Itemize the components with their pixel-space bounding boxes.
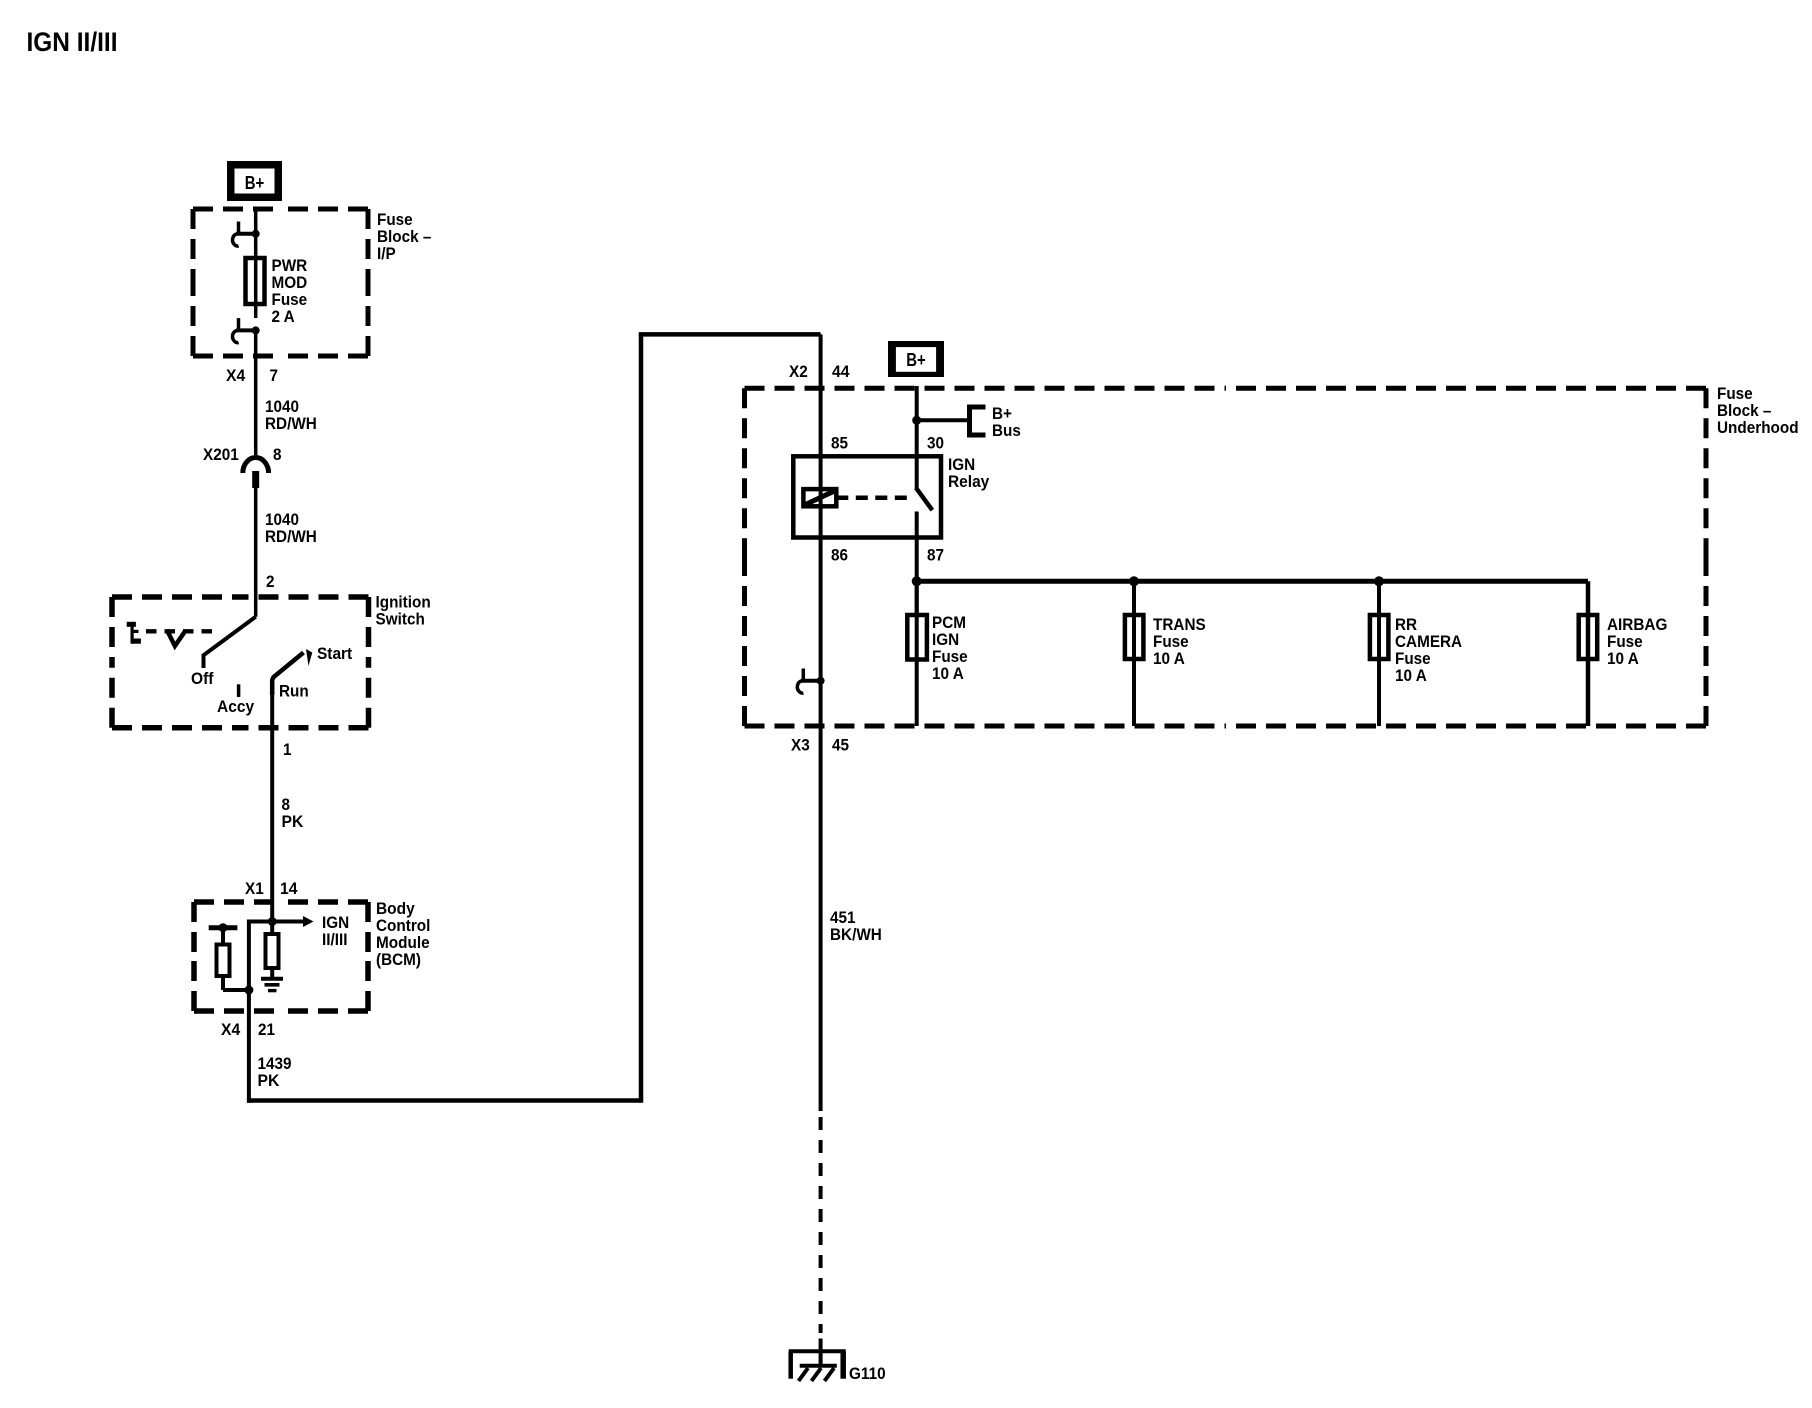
- junction dot relay output: [912, 576, 922, 586]
- ignition switch label: [376, 593, 431, 629]
- clip terminal relay 86: [797, 669, 820, 694]
- svg-text:Bus: Bus: [992, 421, 1021, 440]
- svg-text:G110: G110: [849, 1364, 886, 1383]
- junction dot top clip: [252, 230, 260, 238]
- wire 1439 PK top horizontal: [639, 332, 821, 337]
- wire BCM internal left branch: [249, 922, 272, 991]
- relay switch blade: [916, 488, 932, 511]
- switch blade to Off: [204, 617, 256, 668]
- clip terminal (top): [233, 222, 256, 247]
- svg-text:Start: Start: [317, 644, 353, 663]
- ground G110: [789, 1351, 886, 1383]
- svg-text:BK/WH: BK/WH: [830, 925, 882, 944]
- svg-text:B+: B+: [906, 350, 926, 370]
- svg-text:85: 85: [831, 434, 848, 453]
- svg-text:X201: X201: [203, 445, 239, 464]
- wire relay 87 down: [915, 512, 919, 616]
- junction dot B+ bus: [912, 416, 921, 425]
- wire 1439 PK horizontal run: [247, 1098, 641, 1103]
- junction dot TRANS: [1129, 576, 1139, 586]
- Accy contact tick: [237, 684, 241, 697]
- svg-text:Run: Run: [279, 682, 309, 701]
- relay linkage dashed: [836, 495, 913, 500]
- fuse block I/P label: [377, 210, 431, 263]
- svg-text:10 A: 10 A: [1395, 666, 1427, 685]
- svg-text:Relay: Relay: [948, 472, 990, 491]
- wire label 1040 RD/WH (lower): [265, 510, 317, 546]
- wire label 1040 RD/WH (upper): [265, 397, 317, 433]
- clip terminal (bottom): [233, 318, 256, 343]
- node junction at BCM input: [268, 917, 277, 926]
- svg-text:2 A: 2 A: [272, 307, 295, 326]
- body control module dashed box: [194, 902, 368, 1011]
- wire fuse to X201: [254, 330, 258, 459]
- svg-text:X2: X2: [789, 362, 808, 381]
- svg-text:86: 86: [831, 546, 848, 565]
- svg-text:30: 30: [927, 434, 944, 453]
- svg-text:21: 21: [258, 1020, 275, 1039]
- wire BCM output down: [247, 990, 251, 1103]
- junction dot BCM output: [244, 986, 253, 995]
- junction dot RR CAMERA: [1374, 576, 1384, 586]
- signal arrow IGN II/III: [272, 913, 349, 949]
- junction dot clip 86: [817, 677, 825, 685]
- wire label 8 PK: [282, 795, 305, 831]
- wire resistor2 to output node: [223, 988, 249, 992]
- junction dot bottom clip: [252, 326, 260, 334]
- IGN relay label: [948, 455, 990, 491]
- svg-text:(BCM): (BCM): [376, 950, 421, 969]
- wire label 1439 PK: [258, 1054, 292, 1090]
- fuse bus wire: [917, 579, 1588, 584]
- svg-text:14: 14: [280, 879, 298, 898]
- svg-text:Switch: Switch: [376, 610, 425, 629]
- svg-text:Underhood: Underhood: [1717, 418, 1799, 437]
- resistor 2 left: [221, 928, 225, 945]
- svg-text:X4: X4: [226, 366, 246, 385]
- svg-text:2: 2: [266, 572, 275, 591]
- svg-text:IGN II/III: IGN II/III: [27, 27, 118, 57]
- wire B+ to PWR MOD fuse: [254, 207, 258, 258]
- key symbol: [127, 622, 141, 644]
- battery feed B+ (right): [888, 341, 944, 377]
- svg-text:44: 44: [832, 362, 850, 381]
- actuator arrow V: [167, 630, 186, 646]
- fuse block underhood dashed box: [745, 388, 1707, 726]
- wire down to X2: [819, 334, 823, 456]
- fuse RR CAMERA 10A: [1370, 581, 1462, 726]
- relay coil: [803, 489, 836, 506]
- start arrowhead: [306, 649, 312, 666]
- svg-text:10 A: 10 A: [932, 664, 964, 683]
- wire 1439 PK vertical rise: [639, 334, 644, 1102]
- fuse AIRBAG 10A: [1579, 581, 1668, 726]
- svg-text:PK: PK: [282, 812, 305, 831]
- svg-text:10 A: 10 A: [1607, 649, 1639, 668]
- mechanical linkage dashed: [146, 629, 218, 633]
- ground BCM internal: [261, 979, 283, 991]
- wire to B+ bus: [917, 418, 970, 422]
- fuse PWR MOD 2A: [246, 258, 265, 304]
- inline connector X201 pin 8: [203, 445, 282, 488]
- wire switch run to BCM: [270, 693, 274, 922]
- fuse block I/P dashed box: [193, 209, 368, 356]
- wire 451 dashed to ground: [819, 1117, 823, 1333]
- contact bar left: [209, 925, 238, 930]
- Run contact wire and start arc: [272, 653, 303, 696]
- wire relay 86 down through X3: [819, 456, 823, 726]
- svg-text:45: 45: [832, 736, 849, 755]
- svg-text:8: 8: [273, 445, 282, 464]
- fuse PCM IGN 10A: [907, 581, 967, 726]
- svg-text:10 A: 10 A: [1153, 649, 1185, 668]
- BCM label: [376, 899, 430, 969]
- fuse block underhood label: [1717, 384, 1799, 437]
- svg-text:Accy: Accy: [217, 697, 255, 716]
- svg-text:X1: X1: [245, 879, 264, 898]
- svg-text:B+: B+: [245, 173, 265, 193]
- battery feed B+ (left): [227, 161, 282, 201]
- B+ bus bracket: [967, 404, 1021, 440]
- resistor to ground inside BCM: [270, 922, 274, 935]
- svg-text:Off: Off: [191, 669, 214, 688]
- svg-text:RD/WH: RD/WH: [265, 414, 317, 433]
- svg-text:II/III: II/III: [322, 930, 348, 949]
- svg-text:RD/WH: RD/WH: [265, 527, 317, 546]
- IGN relay box: [793, 456, 941, 537]
- ignition switch dashed box: [112, 597, 369, 728]
- svg-text:X4: X4: [221, 1020, 241, 1039]
- junction dot on bar: [219, 923, 228, 932]
- svg-text:87: 87: [927, 546, 944, 565]
- wire label 451 BK/WH: [830, 908, 882, 944]
- svg-text:7: 7: [270, 366, 279, 385]
- wire B+ to relay pin 30: [915, 386, 919, 488]
- svg-text:PK: PK: [258, 1071, 281, 1090]
- svg-text:1: 1: [283, 740, 292, 759]
- fuse TRANS 10A: [1125, 581, 1206, 726]
- svg-text:I/P: I/P: [377, 244, 396, 263]
- svg-text:X3: X3: [791, 736, 810, 755]
- PWR MOD fuse label: [272, 256, 308, 326]
- wire X201 to switch: [254, 488, 258, 617]
- wire 451 BK/WH solid: [819, 726, 823, 1111]
